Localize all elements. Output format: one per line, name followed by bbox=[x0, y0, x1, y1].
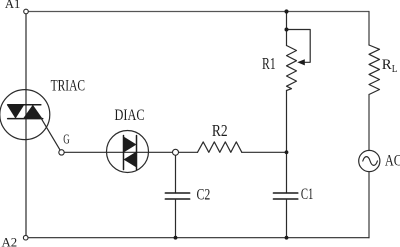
svg-text:AC: AC bbox=[385, 153, 400, 170]
svg-text:L: L bbox=[392, 64, 398, 75]
svg-text:R: R bbox=[382, 57, 392, 73]
svg-text:R2: R2 bbox=[212, 121, 228, 140]
svg-text:R1: R1 bbox=[262, 54, 276, 73]
svg-text:DIAC: DIAC bbox=[115, 107, 145, 124]
svg-text:C2: C2 bbox=[197, 187, 211, 204]
svg-text:G: G bbox=[63, 131, 70, 146]
svg-text:A1: A1 bbox=[5, 0, 20, 11]
svg-text:TRIAC: TRIAC bbox=[51, 78, 85, 95]
svg-text:C1: C1 bbox=[301, 186, 314, 203]
svg-text:A2: A2 bbox=[2, 234, 18, 247]
